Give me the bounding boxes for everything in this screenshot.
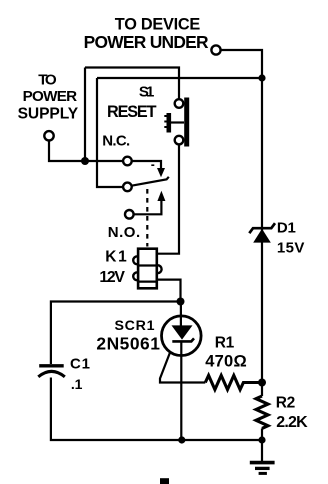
svg-text:TO DEVICE: TO DEVICE (115, 16, 201, 34)
svg-text:15V: 15V (277, 239, 305, 256)
svg-text:2.2K: 2.2K (276, 414, 308, 431)
svg-text:POWER UNDER: POWER UNDER (84, 32, 209, 52)
svg-text:SCR1: SCR1 (115, 318, 155, 334)
svg-text:470Ω: 470Ω (205, 353, 247, 371)
svg-text:TO: TO (38, 72, 57, 89)
svg-text:2N5061: 2N5061 (96, 333, 160, 353)
svg-text:.1: .1 (71, 376, 83, 392)
svg-text:12V: 12V (99, 269, 125, 286)
svg-text:N.C.: N.C. (102, 132, 130, 149)
svg-text:POWER: POWER (23, 88, 78, 105)
svg-text:RESET: RESET (107, 103, 157, 121)
svg-text:S1: S1 (139, 83, 155, 100)
svg-text:R2: R2 (276, 394, 296, 411)
svg-text:N.O.: N.O. (108, 224, 141, 241)
svg-text:R1: R1 (215, 335, 235, 352)
svg-text:C1: C1 (70, 355, 90, 372)
svg-text:D1: D1 (277, 220, 296, 237)
svg-text:K1: K1 (105, 248, 127, 265)
svg-text:SUPPLY: SUPPLY (18, 105, 79, 122)
